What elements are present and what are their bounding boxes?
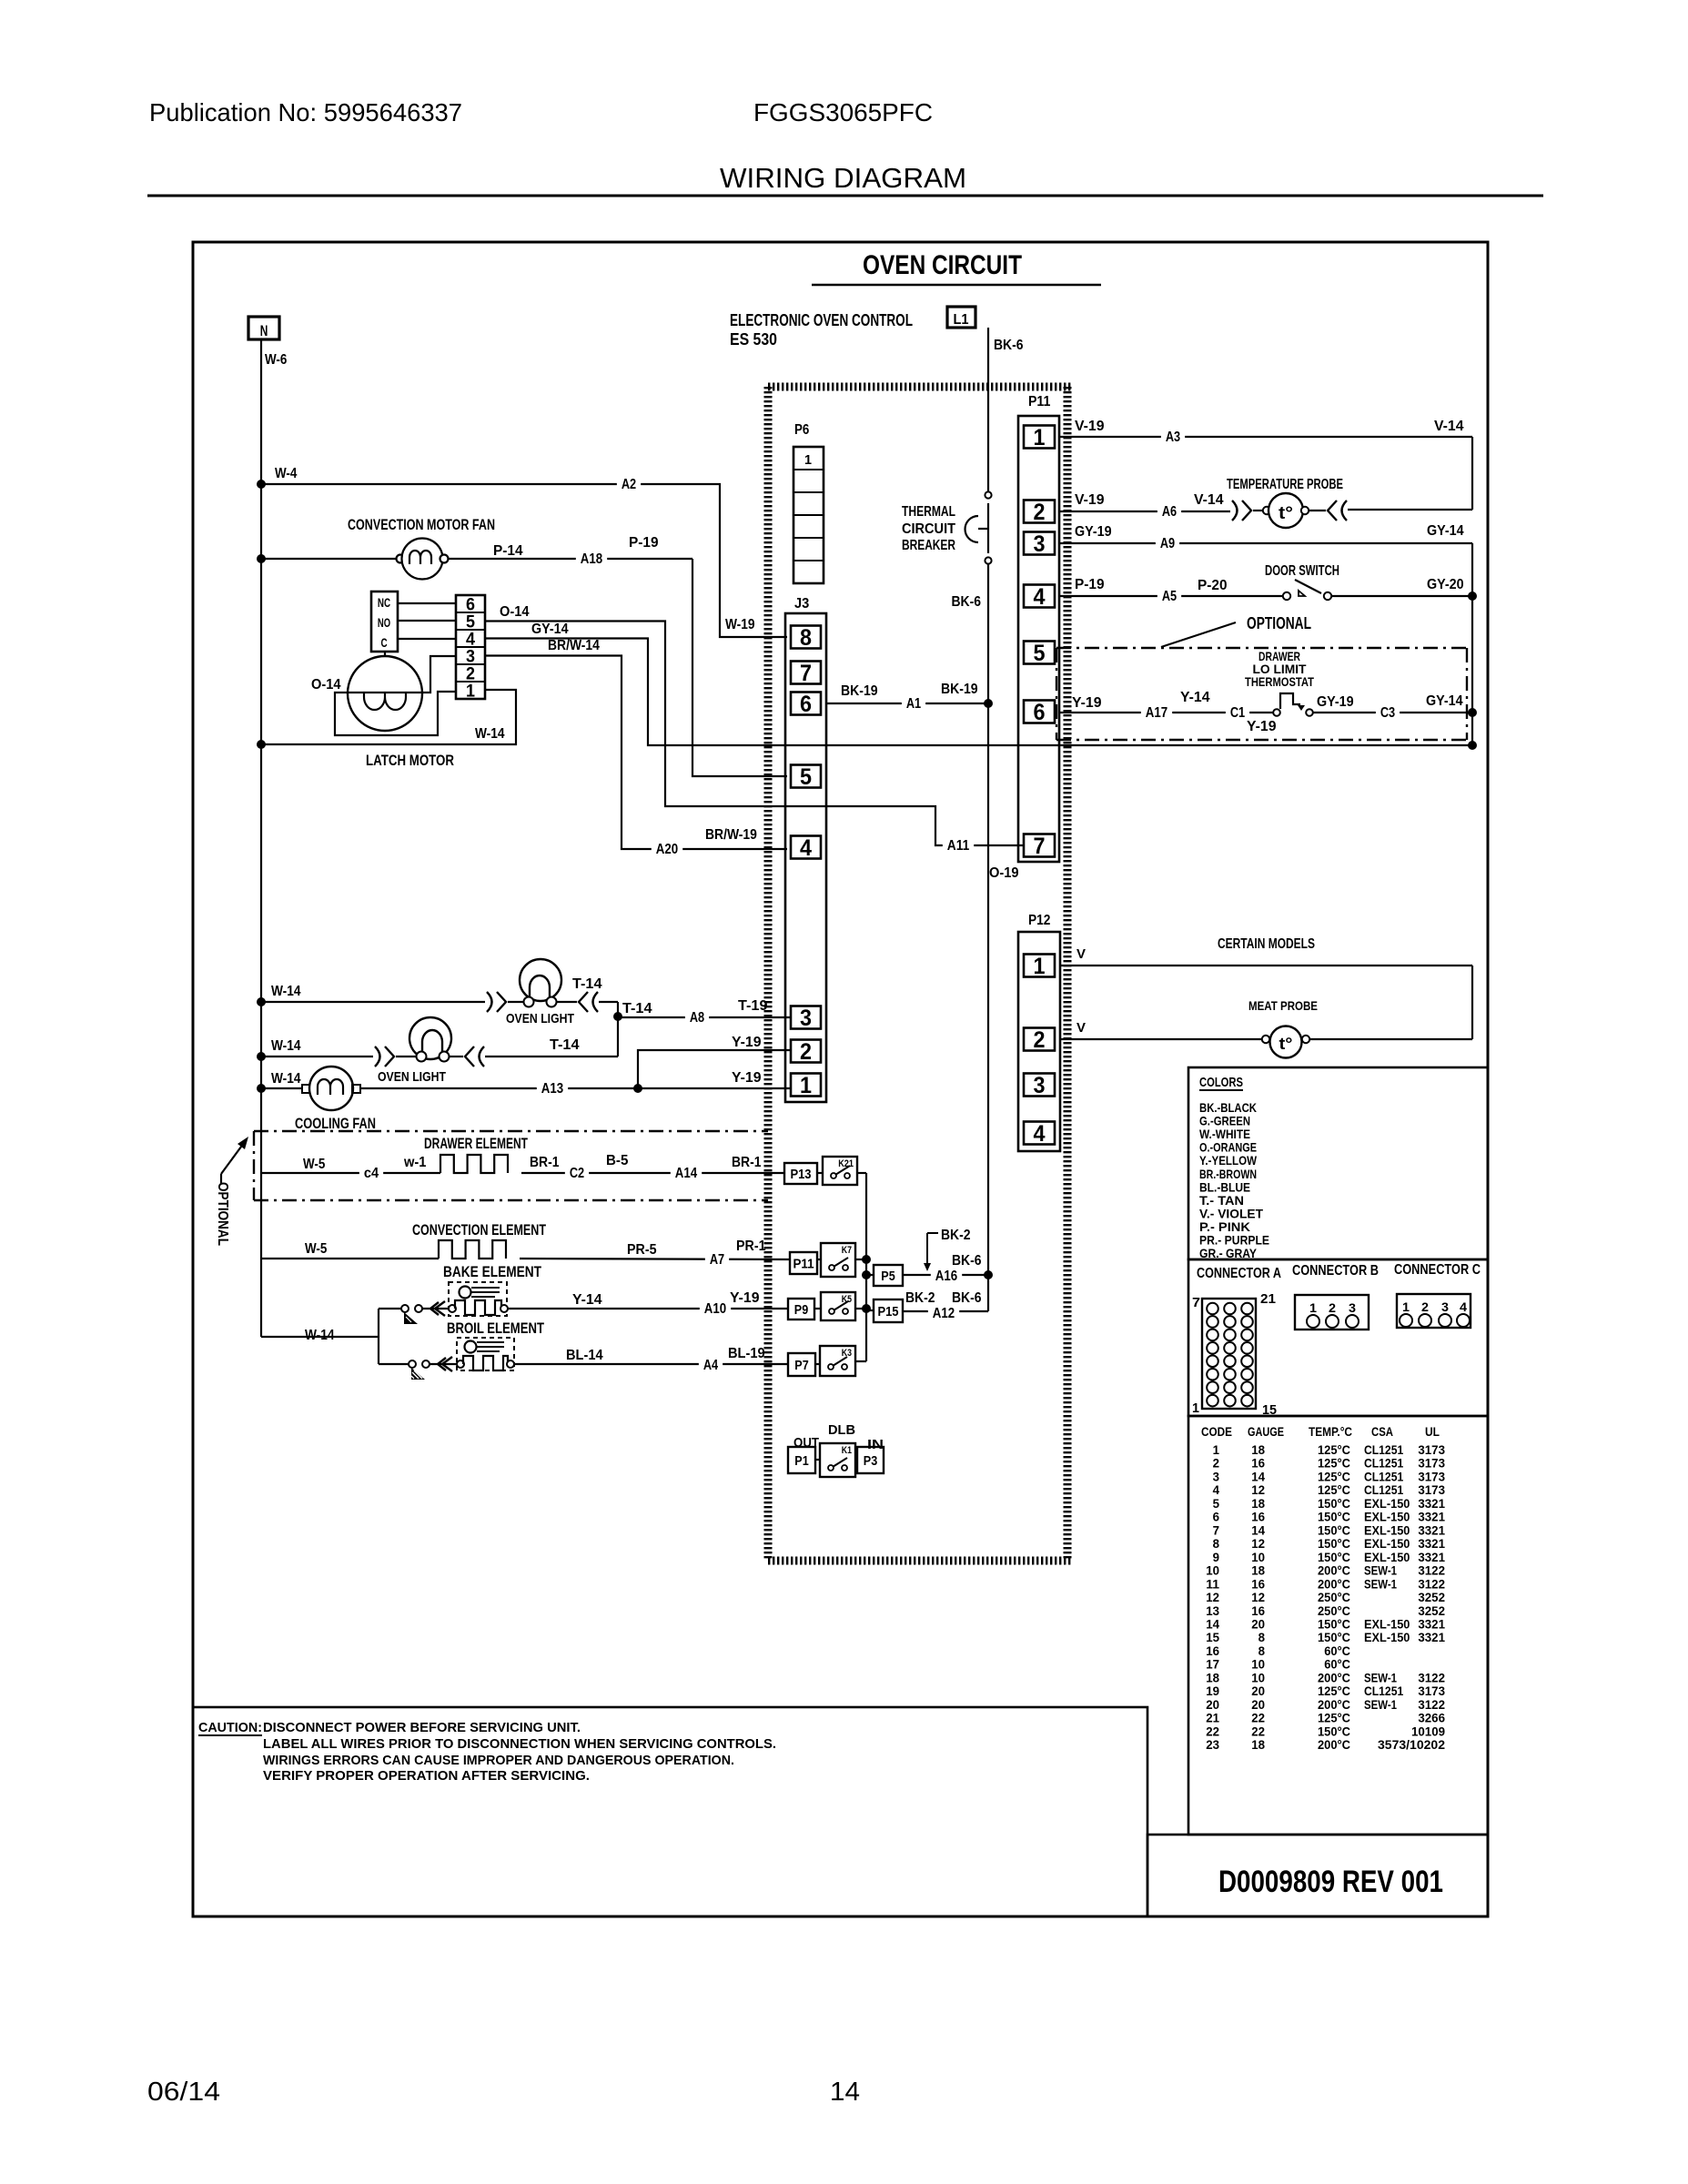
svg-text:NC: NC xyxy=(378,595,390,610)
svg-text:2: 2 xyxy=(1034,1027,1046,1053)
svg-text:3: 3 xyxy=(1034,531,1046,557)
svg-text:W-14: W-14 xyxy=(305,1328,335,1343)
svg-text:V-14: V-14 xyxy=(1194,492,1224,508)
svg-text:16: 16 xyxy=(1206,1643,1219,1658)
svg-text:Y-19: Y-19 xyxy=(730,1290,760,1306)
svg-text:W-6: W-6 xyxy=(265,352,287,368)
wire W-4 / A2 to J3 pin 8 xyxy=(261,466,787,637)
svg-text:A16: A16 xyxy=(935,1269,957,1284)
meat probe xyxy=(1060,946,1472,1058)
svg-text:t°: t° xyxy=(1279,1035,1293,1053)
svg-text:IN: IN xyxy=(867,1437,884,1452)
svg-text:EXL-150: EXL-150 xyxy=(1364,1616,1410,1631)
svg-text:CL1251: CL1251 xyxy=(1364,1482,1403,1497)
svg-text:13: 13 xyxy=(1206,1603,1219,1618)
svg-text:J3: J3 xyxy=(794,596,809,612)
wire A8 / T-19 to J3 pin 3 xyxy=(618,998,791,1026)
svg-text:3: 3 xyxy=(1213,1469,1220,1483)
svg-text:VERIFY PROPER OPERATION AFTER: VERIFY PROPER OPERATION AFTER SERVICING. xyxy=(263,1768,590,1784)
svg-text:w-1: w-1 xyxy=(403,1155,426,1170)
svg-text:BR-1: BR-1 xyxy=(530,1155,560,1170)
svg-text:V: V xyxy=(1076,1020,1086,1036)
svg-text:CL1251: CL1251 xyxy=(1364,1456,1403,1471)
svg-text:COOLING FAN: COOLING FAN xyxy=(295,1115,376,1132)
node N (neutral terminal) xyxy=(248,317,287,368)
svg-text:250°C: 250°C xyxy=(1318,1590,1350,1604)
svg-text:3: 3 xyxy=(800,1006,812,1031)
svg-text:CODE: CODE xyxy=(1201,1424,1232,1439)
svg-text:2: 2 xyxy=(1329,1300,1336,1315)
svg-text:NO: NO xyxy=(378,615,390,630)
svg-text:1: 1 xyxy=(1309,1300,1317,1315)
svg-text:12: 12 xyxy=(1251,1590,1265,1604)
svg-text:WIRING DIAGRAM: WIRING DIAGRAM xyxy=(720,162,966,194)
svg-text:GAUGE: GAUGE xyxy=(1248,1424,1284,1439)
svg-text:125°C: 125°C xyxy=(1318,1683,1350,1698)
svg-text:1: 1 xyxy=(1402,1299,1410,1314)
svg-text:CIRCUIT: CIRCUIT xyxy=(902,521,955,537)
double line break relay DLB (P1/K1/P3) xyxy=(788,1422,884,1477)
svg-text:PR-1: PR-1 xyxy=(736,1239,766,1254)
svg-text:7: 7 xyxy=(1213,1522,1220,1537)
svg-text:200°C: 200°C xyxy=(1318,1670,1350,1684)
svg-text:GY-14: GY-14 xyxy=(531,622,569,637)
svg-text:9: 9 xyxy=(1213,1550,1220,1564)
colors legend box xyxy=(1188,1067,1488,1260)
svg-text:125°C: 125°C xyxy=(1318,1442,1350,1457)
svg-text:10: 10 xyxy=(1251,1550,1265,1564)
svg-text:2: 2 xyxy=(1213,1456,1220,1471)
label ELECTRONIC OVEN CONTROL ES 530 xyxy=(730,311,913,349)
svg-text:200°C: 200°C xyxy=(1318,1576,1350,1591)
svg-text:THERMOSTAT: THERMOSTAT xyxy=(1245,674,1314,689)
svg-text:P6: P6 xyxy=(794,422,809,438)
svg-text:BK-19: BK-19 xyxy=(841,683,878,699)
svg-text:CONVECTION MOTOR FAN: CONVECTION MOTOR FAN xyxy=(348,516,495,533)
svg-text:W-14: W-14 xyxy=(271,1071,301,1087)
svg-text:125°C: 125°C xyxy=(1318,1469,1350,1483)
svg-text:B-5: B-5 xyxy=(606,1153,628,1168)
caution notice box xyxy=(193,1707,1147,1916)
header: model number FGGS3065PFC xyxy=(753,98,933,126)
svg-text:21: 21 xyxy=(1260,1291,1276,1307)
svg-text:W-14: W-14 xyxy=(475,726,505,742)
svg-text:BK-6: BK-6 xyxy=(952,1290,982,1306)
svg-text:DLB: DLB xyxy=(828,1422,855,1438)
svg-text:3122: 3122 xyxy=(1418,1697,1445,1712)
svg-text:P-19: P-19 xyxy=(629,535,659,551)
connector P12 xyxy=(1018,913,1060,1151)
svg-text:BK-2: BK-2 xyxy=(905,1290,935,1306)
svg-text:250°C: 250°C xyxy=(1318,1603,1350,1618)
connector pinout box (A, B, C) xyxy=(1188,1259,1488,1418)
svg-text:SEW-1: SEW-1 xyxy=(1364,1670,1397,1684)
svg-text:150°C: 150°C xyxy=(1318,1630,1350,1644)
svg-text:3321: 3321 xyxy=(1418,1550,1445,1564)
drawer lo limit thermostat (optional box) xyxy=(1056,648,1467,740)
svg-text:BROIL ELEMENT: BROIL ELEMENT xyxy=(447,1319,544,1337)
svg-text:1: 1 xyxy=(1034,425,1046,450)
svg-text:11: 11 xyxy=(1206,1576,1219,1591)
svg-text:19: 19 xyxy=(1206,1683,1219,1698)
svg-text:5: 5 xyxy=(1213,1496,1220,1511)
svg-text:3252: 3252 xyxy=(1418,1603,1445,1618)
svg-text:V-19: V-19 xyxy=(1075,492,1105,508)
svg-text:CSA: CSA xyxy=(1371,1424,1393,1439)
svg-text:Y-19: Y-19 xyxy=(1247,719,1277,734)
temperature probe xyxy=(1059,477,1472,528)
drawer element xyxy=(261,1135,784,1181)
svg-text:12: 12 xyxy=(1206,1590,1219,1604)
svg-text:GY-19: GY-19 xyxy=(1075,524,1112,540)
svg-text:WIRINGS ERRORS CAN CAUSE IMPRO: WIRINGS ERRORS CAN CAUSE IMPROPER AND DA… xyxy=(263,1753,734,1768)
svg-text:5: 5 xyxy=(1034,641,1046,666)
svg-text:A1: A1 xyxy=(906,696,921,712)
connector P6 xyxy=(793,422,824,583)
door switch xyxy=(1059,563,1472,604)
svg-text:CL1251: CL1251 xyxy=(1364,1442,1403,1457)
svg-text:BR/W-19: BR/W-19 xyxy=(705,827,757,843)
svg-text:ELECTRONIC OVEN CONTROL: ELECTRONIC OVEN CONTROL xyxy=(730,311,913,329)
svg-text:BK-6: BK-6 xyxy=(952,1253,982,1269)
svg-text:Publication No: 5995646337: Publication No: 5995646337 xyxy=(149,98,462,126)
svg-text:Y-14: Y-14 xyxy=(1180,690,1210,705)
svg-text:THERMAL: THERMAL xyxy=(902,504,955,520)
svg-text:A4: A4 xyxy=(703,1358,718,1373)
svg-text:6: 6 xyxy=(1213,1510,1220,1524)
svg-text:150°C: 150°C xyxy=(1318,1522,1350,1537)
svg-text:3252: 3252 xyxy=(1418,1590,1445,1604)
svg-text:P9: P9 xyxy=(794,1302,808,1318)
svg-text:K7: K7 xyxy=(842,1245,852,1256)
svg-text:6: 6 xyxy=(1034,700,1046,725)
svg-text:A5: A5 xyxy=(1162,589,1177,604)
svg-text:GY-19: GY-19 xyxy=(1317,694,1354,710)
svg-text:A12: A12 xyxy=(933,1306,955,1321)
svg-text:20: 20 xyxy=(1251,1683,1265,1698)
wire code table xyxy=(1188,1416,1488,1835)
svg-text:PR-5: PR-5 xyxy=(627,1242,657,1258)
svg-text:ES 530: ES 530 xyxy=(730,330,777,349)
svg-text:P11: P11 xyxy=(793,1256,814,1271)
svg-text:1: 1 xyxy=(800,1073,812,1098)
svg-text:150°C: 150°C xyxy=(1318,1496,1350,1511)
svg-text:A18: A18 xyxy=(581,551,602,567)
svg-text:125°C: 125°C xyxy=(1318,1456,1350,1471)
svg-text:3573/10202: 3573/10202 xyxy=(1378,1737,1445,1752)
svg-text:BL-19: BL-19 xyxy=(728,1346,765,1361)
svg-text:FGGS3065PFC: FGGS3065PFC xyxy=(753,98,933,126)
svg-text:P3: P3 xyxy=(864,1453,877,1469)
svg-text:22: 22 xyxy=(1206,1724,1219,1738)
latch switch block NC/NO/C xyxy=(371,591,456,652)
svg-text:4: 4 xyxy=(1034,584,1046,610)
svg-text:A13: A13 xyxy=(541,1081,563,1097)
revision box D0009809 REV 001 xyxy=(1147,1835,1488,1916)
svg-text:C1: C1 xyxy=(1230,705,1245,721)
svg-text:TEMPERATURE PROBE: TEMPERATURE PROBE xyxy=(1227,477,1343,492)
svg-text:10: 10 xyxy=(1251,1657,1265,1672)
svg-text:OVEN LIGHT: OVEN LIGHT xyxy=(378,1069,446,1085)
svg-text:C2: C2 xyxy=(570,1166,584,1181)
svg-text:P15: P15 xyxy=(877,1304,898,1319)
svg-text:12: 12 xyxy=(1251,1482,1265,1497)
svg-text:OPTIONAL: OPTIONAL xyxy=(1247,614,1311,632)
svg-text:LATCH MOTOR: LATCH MOTOR xyxy=(366,752,454,769)
svg-text:V-14: V-14 xyxy=(1434,419,1464,434)
svg-text:DRAWER ELEMENT: DRAWER ELEMENT xyxy=(424,1135,528,1152)
svg-text:A10: A10 xyxy=(704,1301,726,1317)
svg-text:125°C: 125°C xyxy=(1318,1482,1350,1497)
thermostat contact symbol xyxy=(1273,693,1313,716)
svg-text:16: 16 xyxy=(1251,1510,1265,1524)
wire Y-19 to J3 pin 2 xyxy=(638,1035,791,1088)
svg-text:3122: 3122 xyxy=(1418,1563,1445,1578)
svg-text:CAUTION:: CAUTION: xyxy=(198,1720,262,1735)
svg-text:P1: P1 xyxy=(794,1453,808,1469)
relay P5 output / A16 / BK-2 pointer xyxy=(866,1228,988,1286)
svg-text:W-4: W-4 xyxy=(275,466,297,481)
svg-text:14: 14 xyxy=(1251,1469,1265,1483)
svg-text:18: 18 xyxy=(1251,1496,1265,1511)
svg-text:3321: 3321 xyxy=(1418,1630,1445,1644)
relay contact K3 with P7 xyxy=(788,1346,866,1376)
svg-text:16: 16 xyxy=(1251,1603,1265,1618)
convection motor fan xyxy=(261,516,692,580)
svg-text:18: 18 xyxy=(1251,1442,1265,1457)
svg-text:21: 21 xyxy=(1206,1711,1219,1725)
svg-text:OPTIONAL: OPTIONAL xyxy=(215,1182,230,1246)
svg-text:8: 8 xyxy=(1258,1643,1266,1658)
svg-text:4: 4 xyxy=(1460,1299,1467,1314)
svg-text:14: 14 xyxy=(830,2078,860,2107)
svg-text:L1: L1 xyxy=(954,312,969,328)
svg-text:BREAKER: BREAKER xyxy=(902,538,955,553)
connector P11 xyxy=(1018,394,1059,862)
svg-text:MEAT PROBE: MEAT PROBE xyxy=(1248,998,1318,1013)
svg-text:18: 18 xyxy=(1251,1737,1265,1752)
svg-text:2: 2 xyxy=(800,1039,812,1065)
svg-text:W-14: W-14 xyxy=(271,1038,301,1054)
svg-text:A9: A9 xyxy=(1160,536,1175,551)
svg-text:4: 4 xyxy=(1034,1121,1046,1147)
svg-text:K1: K1 xyxy=(842,1445,852,1456)
svg-text:P-20: P-20 xyxy=(1198,578,1228,593)
svg-text:D0009809 REV 001: D0009809 REV 001 xyxy=(1218,1865,1443,1899)
svg-text:10109: 10109 xyxy=(1411,1724,1445,1738)
svg-text:17: 17 xyxy=(1206,1657,1219,1672)
svg-text:150°C: 150°C xyxy=(1318,1550,1350,1564)
wire P-14 / A18 / P-19 to J3 pin 5 xyxy=(493,535,787,776)
svg-text:T-14: T-14 xyxy=(622,1001,652,1016)
wire BK-19 / A1 from J3 pin 6 xyxy=(826,682,988,712)
svg-text:GY-14: GY-14 xyxy=(1427,523,1464,539)
svg-text:60°C: 60°C xyxy=(1324,1643,1350,1658)
svg-text:Y-19: Y-19 xyxy=(1072,695,1102,711)
svg-text:23: 23 xyxy=(1206,1737,1219,1752)
wire GY-19 / A9 / GY-14 from P11 pin 3 xyxy=(1059,523,1472,551)
svg-text:C3: C3 xyxy=(1380,705,1395,721)
thermal circuit breaker xyxy=(902,491,992,563)
svg-text:V-19: V-19 xyxy=(1075,419,1105,434)
svg-text:6: 6 xyxy=(800,692,812,717)
svg-text:TEMP.°C: TEMP.°C xyxy=(1309,1424,1352,1439)
svg-text:150°C: 150°C xyxy=(1318,1536,1350,1551)
svg-text:3173: 3173 xyxy=(1418,1442,1445,1457)
svg-text:200°C: 200°C xyxy=(1318,1737,1350,1752)
svg-text:P5: P5 xyxy=(881,1269,895,1284)
svg-text:3321: 3321 xyxy=(1418,1510,1445,1524)
svg-text:SEW-1: SEW-1 xyxy=(1364,1576,1397,1591)
svg-text:CONNECTOR B: CONNECTOR B xyxy=(1292,1263,1379,1279)
svg-text:GY-20: GY-20 xyxy=(1427,577,1464,592)
svg-text:V: V xyxy=(1076,946,1086,962)
node L1 (line terminal) xyxy=(947,307,1024,353)
svg-text:7: 7 xyxy=(1034,834,1046,859)
svg-text:EXL-150: EXL-150 xyxy=(1364,1510,1410,1524)
svg-text:CONVECTION ELEMENT: CONVECTION ELEMENT xyxy=(412,1221,546,1239)
svg-text:200°C: 200°C xyxy=(1318,1697,1350,1712)
svg-text:1: 1 xyxy=(466,682,475,702)
svg-text:T-14: T-14 xyxy=(572,976,602,992)
svg-text:3266: 3266 xyxy=(1418,1711,1445,1725)
bake element with igniter xyxy=(379,1263,788,1324)
svg-text:15: 15 xyxy=(1206,1630,1219,1644)
wire W-14 latch to neutral bus xyxy=(261,690,516,744)
svg-text:EXL-150: EXL-150 xyxy=(1364,1630,1410,1644)
relay P15 output / A12 / BK-2 xyxy=(866,1290,988,1322)
svg-text:3173: 3173 xyxy=(1418,1482,1445,1497)
svg-text:DISCONNECT POWER BEFORE SERVIC: DISCONNECT POWER BEFORE SERVICING UNIT. xyxy=(263,1720,581,1735)
wire GY-14 to gray bus xyxy=(485,622,1472,745)
svg-text:1: 1 xyxy=(1034,954,1046,979)
oven light (upper) xyxy=(261,959,652,1026)
svg-text:BK-19: BK-19 xyxy=(941,682,978,697)
title OVEN CIRCUIT xyxy=(812,250,1101,285)
svg-text:A6: A6 xyxy=(1162,504,1177,520)
svg-text:C: C xyxy=(380,635,387,650)
wire Y-19 / A17 / Y-14 / C1 to thermostat xyxy=(1059,690,1277,734)
svg-text:3173: 3173 xyxy=(1418,1683,1445,1698)
label CERTAIN MODELS xyxy=(1218,936,1315,952)
connector J3 xyxy=(785,596,826,1102)
svg-text:2: 2 xyxy=(1034,500,1046,525)
svg-text:3173: 3173 xyxy=(1418,1469,1445,1483)
svg-text:A7: A7 xyxy=(710,1252,724,1268)
svg-text:W-5: W-5 xyxy=(303,1157,325,1172)
svg-text:CONNECTOR C: CONNECTOR C xyxy=(1394,1262,1481,1278)
svg-text:W-14: W-14 xyxy=(271,984,301,999)
latch motor xyxy=(311,652,456,769)
svg-text:3321: 3321 xyxy=(1418,1496,1445,1511)
broil element with igniter xyxy=(379,1319,788,1380)
svg-text:A14: A14 xyxy=(675,1166,697,1181)
svg-text:O-14: O-14 xyxy=(311,677,341,693)
svg-text:LABEL ALL WIRES PRIOR TO DISCO: LABEL ALL WIRES PRIOR TO DISCONNECTION W… xyxy=(263,1736,776,1752)
svg-text:125°C: 125°C xyxy=(1318,1711,1350,1725)
svg-text:2: 2 xyxy=(1421,1299,1429,1314)
svg-text:18: 18 xyxy=(1206,1670,1219,1684)
svg-text:3122: 3122 xyxy=(1418,1576,1445,1591)
svg-text:A11: A11 xyxy=(947,838,969,854)
svg-text:1: 1 xyxy=(1213,1442,1220,1457)
wire O-14 / A11 to P11 pin 7 xyxy=(485,604,1023,854)
svg-text:8: 8 xyxy=(800,625,812,651)
convection element xyxy=(261,1221,790,1268)
svg-text:150°C: 150°C xyxy=(1318,1724,1350,1738)
svg-text:3321: 3321 xyxy=(1418,1522,1445,1537)
svg-text:DOOR SWITCH: DOOR SWITCH xyxy=(1265,563,1339,579)
svg-text:5: 5 xyxy=(800,764,812,790)
svg-text:16: 16 xyxy=(1251,1576,1265,1591)
svg-text:14: 14 xyxy=(1206,1616,1219,1631)
label OPTIONAL with leader xyxy=(1161,614,1311,647)
wire relay bus vertical xyxy=(862,1173,871,1361)
svg-text:BR-1: BR-1 xyxy=(732,1155,762,1170)
svg-text:P-19: P-19 xyxy=(1075,577,1105,592)
svg-text:EXL-150: EXL-150 xyxy=(1364,1496,1410,1511)
svg-text:T-14: T-14 xyxy=(550,1037,580,1053)
relay contact K5 with P9 xyxy=(788,1292,866,1320)
svg-text:3321: 3321 xyxy=(1418,1616,1445,1631)
svg-text:SEW-1: SEW-1 xyxy=(1364,1697,1397,1712)
svg-text:EXL-150: EXL-150 xyxy=(1364,1522,1410,1537)
svg-text:8: 8 xyxy=(1258,1630,1266,1644)
svg-text:14: 14 xyxy=(1251,1522,1265,1537)
svg-text:t°: t° xyxy=(1279,504,1293,523)
svg-text:Y-19: Y-19 xyxy=(732,1070,762,1086)
svg-text:22: 22 xyxy=(1251,1724,1265,1738)
svg-text:3321: 3321 xyxy=(1418,1536,1445,1551)
svg-text:K5: K5 xyxy=(842,1294,852,1305)
svg-text:3173: 3173 xyxy=(1418,1456,1445,1471)
svg-text:20: 20 xyxy=(1251,1697,1265,1712)
wire V-19 / A3 / V-14 from P11 pin 1 xyxy=(1059,419,1472,510)
svg-text:7: 7 xyxy=(1192,1295,1200,1310)
svg-text:10: 10 xyxy=(1206,1563,1219,1578)
svg-text:EXL-150: EXL-150 xyxy=(1364,1550,1410,1564)
optional drawer element boundary (dash-dot) xyxy=(215,1131,768,1246)
svg-text:N: N xyxy=(260,322,268,339)
svg-text:8: 8 xyxy=(1213,1536,1220,1551)
wire BK-6 / O-19 vertical bus xyxy=(952,328,1019,1311)
svg-text:W-5: W-5 xyxy=(305,1241,327,1257)
footer date 06/14 xyxy=(147,2078,220,2107)
svg-text:BAKE ELEMENT: BAKE ELEMENT xyxy=(443,1263,541,1280)
svg-text:A17: A17 xyxy=(1146,705,1167,721)
svg-text:CERTAIN MODELS: CERTAIN MODELS xyxy=(1218,936,1315,952)
svg-text:P11: P11 xyxy=(1028,394,1050,409)
svg-text:4: 4 xyxy=(1213,1482,1220,1497)
svg-text:P12: P12 xyxy=(1028,913,1050,928)
svg-text:P13: P13 xyxy=(790,1167,811,1182)
svg-text:BL-14: BL-14 xyxy=(566,1348,603,1363)
svg-text:BK-6: BK-6 xyxy=(994,338,1024,353)
header: publication number xyxy=(149,98,462,126)
svg-text:10: 10 xyxy=(1251,1670,1265,1684)
svg-text:3122: 3122 xyxy=(1418,1670,1445,1684)
svg-text:OVEN LIGHT: OVEN LIGHT xyxy=(506,1011,574,1026)
svg-text:CL1251: CL1251 xyxy=(1364,1683,1403,1698)
svg-text:18: 18 xyxy=(1251,1563,1265,1578)
svg-text:P-14: P-14 xyxy=(493,543,523,559)
wire: left neutral bus W-6 vertical xyxy=(257,339,266,1337)
svg-text:1: 1 xyxy=(1192,1400,1199,1416)
wire GY-19 / C3 / GY-14 from thermostat xyxy=(1313,693,1472,721)
electronic oven control board (hatched outline) xyxy=(768,387,1071,1561)
svg-text:12: 12 xyxy=(1251,1536,1265,1551)
latch connector strip pins 6-1 xyxy=(456,595,485,702)
